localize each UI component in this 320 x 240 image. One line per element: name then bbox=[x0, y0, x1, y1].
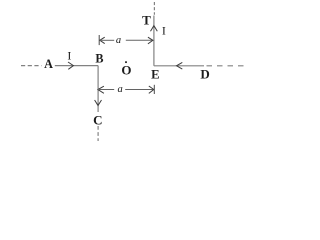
current arrow (D toward E) bbox=[177, 62, 183, 69]
wire: right dashed lead bbox=[207, 65, 245, 67]
current arrow (down on BC wire) bbox=[95, 100, 102, 106]
point O dot bbox=[125, 61, 127, 63]
svg-text:C: C bbox=[93, 112, 102, 127]
svg-text:O: O bbox=[121, 62, 131, 77]
dimension a (top): left arrow bbox=[100, 37, 105, 43]
current arrow (up on ET wire) bbox=[151, 26, 158, 32]
svg-text:a: a bbox=[117, 84, 122, 95]
svg-text:T: T bbox=[142, 12, 151, 27]
wire: dashed below C bbox=[97, 126, 99, 141]
svg-text:D: D bbox=[200, 66, 209, 81]
svg-text:E: E bbox=[151, 67, 159, 81]
current arrow I (A to B) bbox=[68, 62, 73, 69]
svg-text:I: I bbox=[67, 49, 71, 63]
svg-text:a: a bbox=[116, 35, 121, 46]
dimension a (top): line bbox=[100, 39, 114, 41]
wire: A to B bbox=[55, 65, 98, 67]
wire: dashed above T bbox=[153, 2, 155, 15]
dimension a (bottom): tick bbox=[153, 85, 155, 94]
svg-text:I: I bbox=[162, 24, 166, 38]
wire: E up to T bbox=[153, 16, 155, 66]
dimension a (bottom): right arrow bbox=[149, 86, 154, 93]
wire: left dashed lead bbox=[21, 65, 42, 67]
wire: B down to C bbox=[97, 66, 99, 112]
dimension a (bottom): line bbox=[98, 89, 114, 91]
dimension a (bottom): left arrow bbox=[98, 86, 104, 93]
dimension a (top): right arrow bbox=[148, 37, 153, 44]
svg-text:B: B bbox=[95, 51, 103, 65]
svg-text:A: A bbox=[44, 57, 53, 71]
wire: E to D bbox=[154, 65, 204, 67]
dimension a (top): tick bbox=[98, 35, 100, 45]
